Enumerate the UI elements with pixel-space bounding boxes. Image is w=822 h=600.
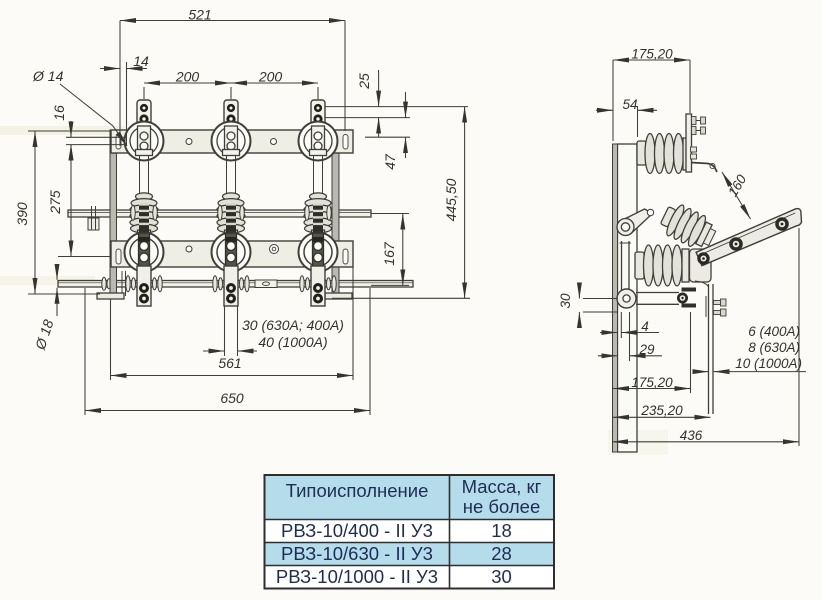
svg-text:445,50: 445,50 — [443, 178, 459, 221]
svg-text:175,20: 175,20 — [631, 375, 673, 390]
rod bolt 2 — [714, 311, 721, 315]
svg-text:235,20: 235,20 — [640, 403, 683, 418]
pole 2 top — [212, 100, 251, 161]
pole 3 middle — [299, 155, 338, 306]
top insulator bellows — [645, 134, 655, 174]
FRONT DIMENSION TEXTS — [14, 7, 459, 407]
dim 16 — [70, 121, 72, 137]
hinge plate — [690, 249, 712, 282]
lower insulator bellows — [644, 245, 654, 286]
svg-text:Ø 14: Ø 14 — [32, 68, 64, 84]
left crank on upper shaft — [88, 218, 99, 230]
dim 521 — [120, 20, 345, 22]
diagonal arm blade — [696, 209, 801, 266]
leader diameter 14 — [60, 84, 127, 146]
dim 561 — [111, 375, 354, 377]
dim 4 — [600, 332, 617, 334]
dim 30/40 blade width — [203, 350, 225, 352]
right reference lines — [325, 106, 468, 108]
svg-text:Масса, кг: Масса, кг — [462, 476, 542, 497]
dim 650 — [85, 410, 370, 412]
upper crank — [621, 209, 653, 234]
dim 14 — [100, 68, 120, 70]
hook arm — [691, 163, 717, 173]
svg-text:6 (400А): 6 (400А) — [748, 324, 800, 339]
lower insulator flange — [682, 249, 689, 282]
tie rod — [621, 241, 623, 290]
left vertical channel — [110, 130, 117, 299]
dim 175,20 top — [613, 59, 690, 61]
channel column flange — [613, 144, 618, 452]
TABLE — [265, 475, 555, 589]
dim 445,50 — [464, 107, 466, 299]
FRONT DIMENSIONS — [28, 21, 470, 416]
svg-text:28: 28 — [491, 543, 512, 564]
dim 200 (pole2-pole3) — [231, 82, 318, 84]
svg-text:РВЗ-10/630 - II У3: РВЗ-10/630 - II У3 — [281, 543, 433, 564]
top insulator flange — [683, 138, 690, 170]
svg-text:436: 436 — [680, 428, 703, 443]
rod bolt 1 — [714, 301, 721, 305]
dim 47 — [405, 92, 407, 118]
svg-text:4: 4 — [641, 319, 649, 334]
svg-text:650: 650 — [220, 390, 244, 406]
svg-text:390: 390 — [14, 202, 30, 226]
svg-text:200: 200 — [258, 69, 283, 85]
svg-text:18: 18 — [491, 520, 512, 541]
channel column web — [618, 144, 638, 452]
svg-text:200: 200 — [175, 69, 200, 85]
dim 436 — [612, 441, 799, 443]
link bar — [636, 292, 679, 294]
svg-text:29: 29 — [638, 342, 655, 357]
svg-text:54: 54 — [622, 97, 637, 112]
svg-text:47: 47 — [382, 153, 398, 170]
bottom pivot — [617, 289, 636, 308]
right vertical channel — [332, 130, 339, 299]
svg-text:25: 25 — [356, 73, 372, 90]
SIDE DIMENSIONS — [579, 60, 806, 446]
svg-text:30: 30 — [558, 293, 573, 309]
svg-text:561: 561 — [218, 355, 241, 371]
dim 175,20 bottom — [613, 388, 691, 390]
lower conductor rod — [708, 284, 710, 414]
svg-text:10 (1000А): 10 (1000А) — [735, 356, 802, 371]
svg-text:не более: не более — [463, 496, 541, 517]
lower mounting band — [111, 241, 353, 267]
dim 30 side — [578, 283, 580, 299]
dim 54 — [596, 109, 613, 111]
FRONT VIEW — [58, 100, 413, 306]
SIDE DIMENSION TEXTS — [558, 47, 802, 444]
svg-text:175,20: 175,20 — [631, 47, 673, 62]
pole 1 top — [125, 100, 164, 161]
svg-text:275: 275 — [47, 190, 63, 215]
dim 275 — [70, 145, 72, 257]
svg-text:30: 30 — [491, 566, 512, 587]
tilted insulator — [657, 200, 720, 254]
dim 390 — [34, 131, 36, 294]
dim 200 (pole1-pole2) — [144, 82, 231, 84]
svg-text:521: 521 — [188, 7, 211, 23]
left bearing plate on lower shaft — [121, 271, 123, 296]
dim 235,20 — [613, 416, 711, 418]
top terminal bolt 2 — [692, 127, 697, 135]
SIDE VIEW — [613, 114, 802, 452]
rod clamp plate — [705, 296, 707, 317]
top terminal bolt 1 — [692, 117, 697, 125]
upper drive shaft — [68, 210, 371, 217]
dim 160 diagonal — [722, 172, 751, 219]
dim 25 — [378, 70, 380, 107]
svg-text:Типоисполнение: Типоисполнение — [286, 480, 429, 501]
top terminal plate — [686, 114, 692, 172]
lower drive shaft — [58, 281, 413, 288]
pole 2 middle — [212, 155, 251, 306]
svg-text:16: 16 — [51, 105, 67, 121]
svg-text:167: 167 — [381, 241, 397, 266]
dim 167 — [402, 214, 404, 286]
svg-text:8 (630А): 8 (630А) — [748, 340, 800, 355]
svg-text:РВЗ-10/1000 - II У3: РВЗ-10/1000 - II У3 — [276, 566, 438, 587]
leader diameter 18 — [56, 265, 58, 280]
left foot — [97, 293, 124, 299]
lower shaft inline link — [255, 280, 277, 288]
terminal pads — [691, 147, 697, 152]
svg-text:РВЗ-10/400 - II У3: РВЗ-10/400 - II У3 — [281, 520, 433, 541]
dim 29 — [598, 355, 617, 357]
scan tint streaks — [0, 126, 125, 135]
link bolt — [677, 293, 688, 304]
arm bolt 2 — [775, 217, 789, 231]
clamp plates — [682, 288, 697, 292]
lower insulator cap — [635, 252, 644, 279]
pole 3 top — [299, 100, 338, 161]
pole 1 middle — [125, 155, 164, 306]
arm bolt 1 — [729, 237, 743, 251]
svg-text:40 (1000А): 40 (1000А) — [258, 334, 327, 350]
svg-text:30 (630А; 400А): 30 (630А; 400А) — [242, 317, 344, 333]
right foot — [325, 293, 352, 299]
top insulator cap — [637, 141, 646, 165]
svg-text:14: 14 — [133, 53, 149, 69]
rod thickness arrows — [694, 371, 708, 373]
upper mounting band — [111, 130, 353, 153]
